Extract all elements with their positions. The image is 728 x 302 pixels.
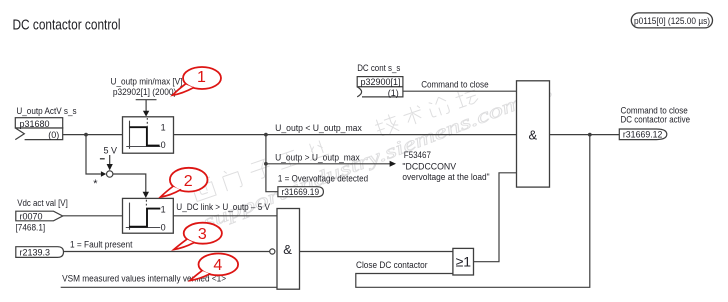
label/tap p32902 threshold bbox=[111, 77, 183, 117]
node junction on U_outp wire bbox=[84, 133, 88, 137]
svg-text:(1): (1) bbox=[388, 88, 399, 98]
svg-text:overvoltage at the load": overvoltage at the load" bbox=[402, 172, 489, 182]
wire node to summing point bbox=[86, 135, 101, 174]
svg-text:DC cont s_s: DC cont s_s bbox=[357, 63, 401, 73]
OR gate >=1 bbox=[453, 248, 474, 275]
svg-text:*: * bbox=[93, 178, 98, 190]
svg-text:r31669.19: r31669.19 bbox=[282, 187, 320, 197]
callout balloon 4 bbox=[190, 254, 238, 281]
svg-text:"DCDCCONV: "DCDCCONV bbox=[402, 161, 456, 171]
svg-text:3: 3 bbox=[198, 226, 207, 243]
svg-text:0: 0 bbox=[161, 223, 166, 233]
svg-text:r0070: r0070 bbox=[20, 211, 43, 221]
binector output r2139.3 bbox=[16, 247, 64, 258]
wire r0070 to comparator 2 bbox=[63, 215, 123, 217]
svg-text:U_outp > U_outp_max: U_outp > U_outp_max bbox=[275, 153, 360, 163]
wire AND1 output to r31669.12 bbox=[550, 134, 620, 136]
watermark bbox=[191, 81, 555, 234]
svg-text:U_outp ActV s_s: U_outp ActV s_s bbox=[16, 106, 77, 116]
svg-text:U_outp min/max [V]: U_outp min/max [V] bbox=[111, 77, 183, 87]
svg-text:1: 1 bbox=[161, 204, 166, 214]
wire p32900 to AND1 bbox=[403, 90, 517, 92]
svg-text:p32902[1] (2000): p32902[1] (2000) bbox=[113, 87, 177, 97]
node branch junction bbox=[264, 133, 268, 137]
svg-text:U_outp < U_outp_max: U_outp < U_outp_max bbox=[275, 123, 362, 133]
svg-text:2: 2 bbox=[184, 173, 193, 190]
svg-text:p0115[0] (125.00 µs): p0115[0] (125.00 µs) bbox=[634, 15, 710, 26]
callout balloon 3 bbox=[174, 223, 222, 250]
wire branch to r31669.19 bbox=[266, 164, 278, 192]
svg-text:F53467: F53467 bbox=[404, 150, 431, 160]
svg-text:Vdc act val [V]: Vdc act val [V] bbox=[17, 198, 68, 208]
svg-text:1: 1 bbox=[161, 122, 166, 132]
sampling-time box p0115[0] bbox=[631, 13, 712, 28]
wire comparator 1 to AND1 bbox=[174, 134, 517, 136]
node output junction bbox=[588, 133, 592, 137]
connector input p31680 bbox=[15, 118, 62, 140]
svg-text:1: 1 bbox=[197, 69, 206, 86]
binector output r31669.12 bbox=[619, 129, 667, 140]
binector input p32900 bbox=[357, 77, 403, 98]
label F53467 fault text bbox=[402, 150, 489, 182]
wire to fault message with arrow bbox=[266, 163, 390, 165]
svg-text:DC contactor control: DC contactor control bbox=[13, 17, 121, 34]
5 V offset source bbox=[100, 145, 117, 170]
connector output r0070 bbox=[16, 211, 63, 221]
callout balloon 2 bbox=[161, 168, 208, 197]
wire VSM to AND2 bbox=[61, 286, 277, 288]
svg-text:&: & bbox=[529, 128, 538, 143]
wire r2139.3 to AND2 inverted input bbox=[64, 251, 270, 253]
svg-text:&: & bbox=[283, 242, 292, 257]
svg-text:1 = Fault present: 1 = Fault present bbox=[70, 240, 133, 250]
wire AND2 to OR gate bbox=[300, 251, 453, 253]
svg-text:r2139.3: r2139.3 bbox=[20, 247, 51, 257]
svg-text:Close DC contactor: Close DC contactor bbox=[356, 260, 428, 270]
svg-text:4: 4 bbox=[213, 257, 222, 274]
svg-text:≥1: ≥1 bbox=[456, 254, 472, 270]
inversion bubble bbox=[270, 249, 275, 254]
svg-text:U_DC link > U_outp – 5 V: U_DC link > U_outp – 5 V bbox=[176, 202, 270, 212]
svg-text:r31669.12: r31669.12 bbox=[623, 129, 663, 139]
wire comparator 2 to AND2 bbox=[173, 215, 277, 217]
wire feedback loop bbox=[356, 135, 590, 288]
AND gate U3 bbox=[517, 81, 550, 187]
wire p31680 to comparator 1 bbox=[63, 134, 123, 136]
comparator U2 (U_DC link > U_outp - 5 V) bbox=[123, 198, 174, 233]
svg-text:(0): (0) bbox=[48, 130, 59, 140]
wire branch down bbox=[265, 135, 267, 164]
comparator U1 (U_outp < U_outp_max) bbox=[123, 117, 174, 153]
wire summing point to comparator 2 top bbox=[113, 174, 146, 192]
wire OR output up to AND1 bbox=[474, 173, 517, 262]
svg-text:DC contactor active: DC contactor active bbox=[621, 115, 691, 125]
svg-text:Command to close: Command to close bbox=[421, 79, 488, 89]
summing node bbox=[107, 171, 113, 177]
svg-text:1 = Overvoltage detected: 1 = Overvoltage detected bbox=[278, 174, 368, 184]
binector output r31669.19 bbox=[278, 187, 324, 197]
svg-text:p32900[1]: p32900[1] bbox=[361, 77, 401, 87]
AND gate U4 bbox=[277, 209, 300, 290]
node second junction bbox=[264, 162, 268, 166]
svg-text:[7468.1]: [7468.1] bbox=[16, 222, 46, 232]
svg-text:5 V: 5 V bbox=[104, 145, 118, 155]
callout balloon 1 bbox=[173, 67, 222, 95]
svg-text:p31680: p31680 bbox=[20, 119, 50, 129]
svg-text:0: 0 bbox=[161, 140, 166, 150]
